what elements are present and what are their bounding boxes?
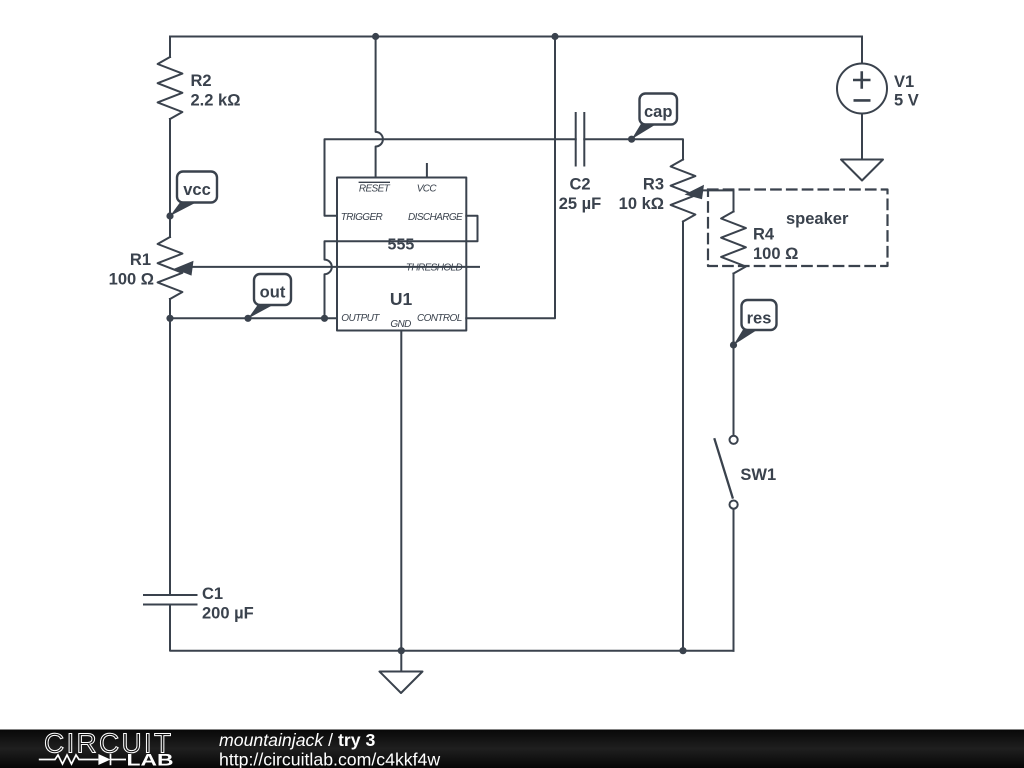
svg-text:res: res: [747, 310, 772, 328]
svg-text:CONTROL: CONTROL: [417, 313, 462, 324]
logo resistor zigzag: [39, 755, 99, 764]
svg-text:V1: V1: [894, 73, 914, 91]
svg-text:200 µF: 200 µF: [202, 604, 254, 622]
wire R4 bottom to SW1 top: [733, 274, 735, 435]
wire V1 top lead: [861, 37, 863, 64]
V1 plus sign: [853, 71, 871, 88]
logo diode: [98, 754, 110, 765]
R1 wiper arrow: [174, 261, 194, 276]
resistor R3 (potentiometer body): [671, 160, 696, 222]
wire V1 bottom lead: [861, 114, 863, 160]
node dot gnd rail: [398, 647, 405, 654]
footer bar: [0, 728, 1024, 768]
wire VCC stub of 555: [426, 164, 428, 178]
svg-text:THRESHOLD: THRESHOLD: [406, 262, 463, 273]
svg-text:out: out: [260, 284, 286, 302]
svg-text:TRIGGER: TRIGGER: [341, 212, 383, 223]
ground symbol at bottom: [380, 672, 423, 694]
flag res: [734, 300, 777, 345]
wire TRIGGER net (555 trigger to C2 left): [325, 139, 576, 216]
svg-text:10 kΩ: 10 kΩ: [619, 195, 664, 213]
flag vcc: [170, 172, 217, 217]
svg-text:5 V: 5 V: [894, 92, 919, 110]
svg-text:cap: cap: [644, 103, 672, 121]
node vcc dot: [166, 212, 173, 219]
wire RESET riser (top rail to 555, hop over trigger wire): [376, 37, 383, 178]
node dot top rail / control: [551, 33, 558, 40]
flag out: [248, 274, 291, 319]
pin label RESET overline: [359, 181, 390, 183]
node cap dot: [628, 136, 635, 143]
switch SW1 top contact: [730, 436, 738, 444]
svg-text:100 Ω: 100 Ω: [753, 245, 798, 263]
svg-text:VCC: VCC: [417, 183, 438, 194]
V1 minus sign: [854, 99, 871, 102]
node dot output/discharge: [321, 315, 328, 322]
555 pin labels: [341, 182, 463, 330]
wire OUTPUT net: [170, 317, 337, 319]
node res dot: [730, 341, 737, 348]
speaker dashed box: [708, 190, 888, 267]
wire left rail upper (top rail to R2): [169, 37, 171, 58]
svg-text:R1: R1: [130, 251, 151, 269]
capacitor C1: [144, 595, 197, 605]
wire R4 top lead: [733, 190, 735, 211]
svg-text:C1: C1: [202, 585, 223, 603]
svg-text:OUTPUT: OUTPUT: [341, 313, 380, 324]
svg-text:SW1: SW1: [740, 466, 776, 484]
svg-text:http://circuitlab.com/c4kkf4w: http://circuitlab.com/c4kkf4w: [219, 750, 440, 768]
svg-text:DISCHARGE: DISCHARGE: [408, 212, 463, 223]
flag cap: [632, 94, 677, 140]
svg-text:100 Ω: 100 Ω: [109, 271, 154, 289]
wire GND pin of 555 to ground: [400, 331, 402, 672]
node dot R3 rail: [679, 647, 686, 654]
node dot R1 bottom: [166, 315, 173, 322]
resistor R2: [158, 57, 183, 119]
wire C1 bottom + bottom rail: [170, 605, 734, 651]
op-amp U1 555 timer box: [337, 178, 466, 331]
resistor R4: [721, 212, 746, 274]
svg-text:speaker: speaker: [786, 210, 849, 228]
svg-text:vcc: vcc: [183, 181, 211, 199]
wire THRESHOLD to R1 wiper: [186, 266, 479, 268]
svg-text:GND: GND: [390, 319, 411, 330]
svg-text:U1: U1: [390, 289, 413, 309]
voltage source V1 circle: [837, 64, 887, 114]
node dot top rail / reset: [372, 33, 379, 40]
svg-text:mountainjack / try 3: mountainjack / try 3: [219, 730, 375, 750]
wire R1 bottom to C1 top: [169, 299, 171, 595]
resistor R1 (potentiometer body): [158, 237, 183, 299]
wire top rail: [170, 36, 862, 38]
svg-text:R3: R3: [643, 175, 664, 193]
svg-text:2.2 kΩ: 2.2 kΩ: [191, 91, 241, 109]
wire DISCHARGE loop to OUTPUT (hop over threshold wire): [325, 216, 478, 318]
node out dot: [244, 315, 251, 322]
wire R2 bottom to R1 top: [169, 119, 171, 237]
svg-text:R4: R4: [753, 225, 775, 243]
svg-text:25 µF: 25 µF: [559, 195, 602, 213]
wire C2 right to R3 top: [584, 139, 683, 159]
switch SW1 bottom contact: [730, 501, 738, 509]
svg-text:RESET: RESET: [359, 183, 391, 194]
svg-text:C2: C2: [569, 175, 590, 193]
capacitor C2: [576, 113, 585, 166]
svg-text:LAB: LAB: [127, 752, 174, 768]
wire SW1 bottom to bottom rail: [733, 510, 735, 651]
wire R3 bottom to bottom rail: [682, 222, 684, 651]
wire R3 wiper to R4 top: [701, 189, 734, 191]
svg-text:555: 555: [388, 237, 415, 254]
svg-text:R2: R2: [191, 72, 212, 90]
switch SW1 lever: [715, 439, 733, 497]
R3 wiper arrow: [685, 185, 705, 200]
ground symbol under V1: [841, 160, 883, 181]
wire CONTROL net (555 control to top rail): [466, 37, 555, 319]
